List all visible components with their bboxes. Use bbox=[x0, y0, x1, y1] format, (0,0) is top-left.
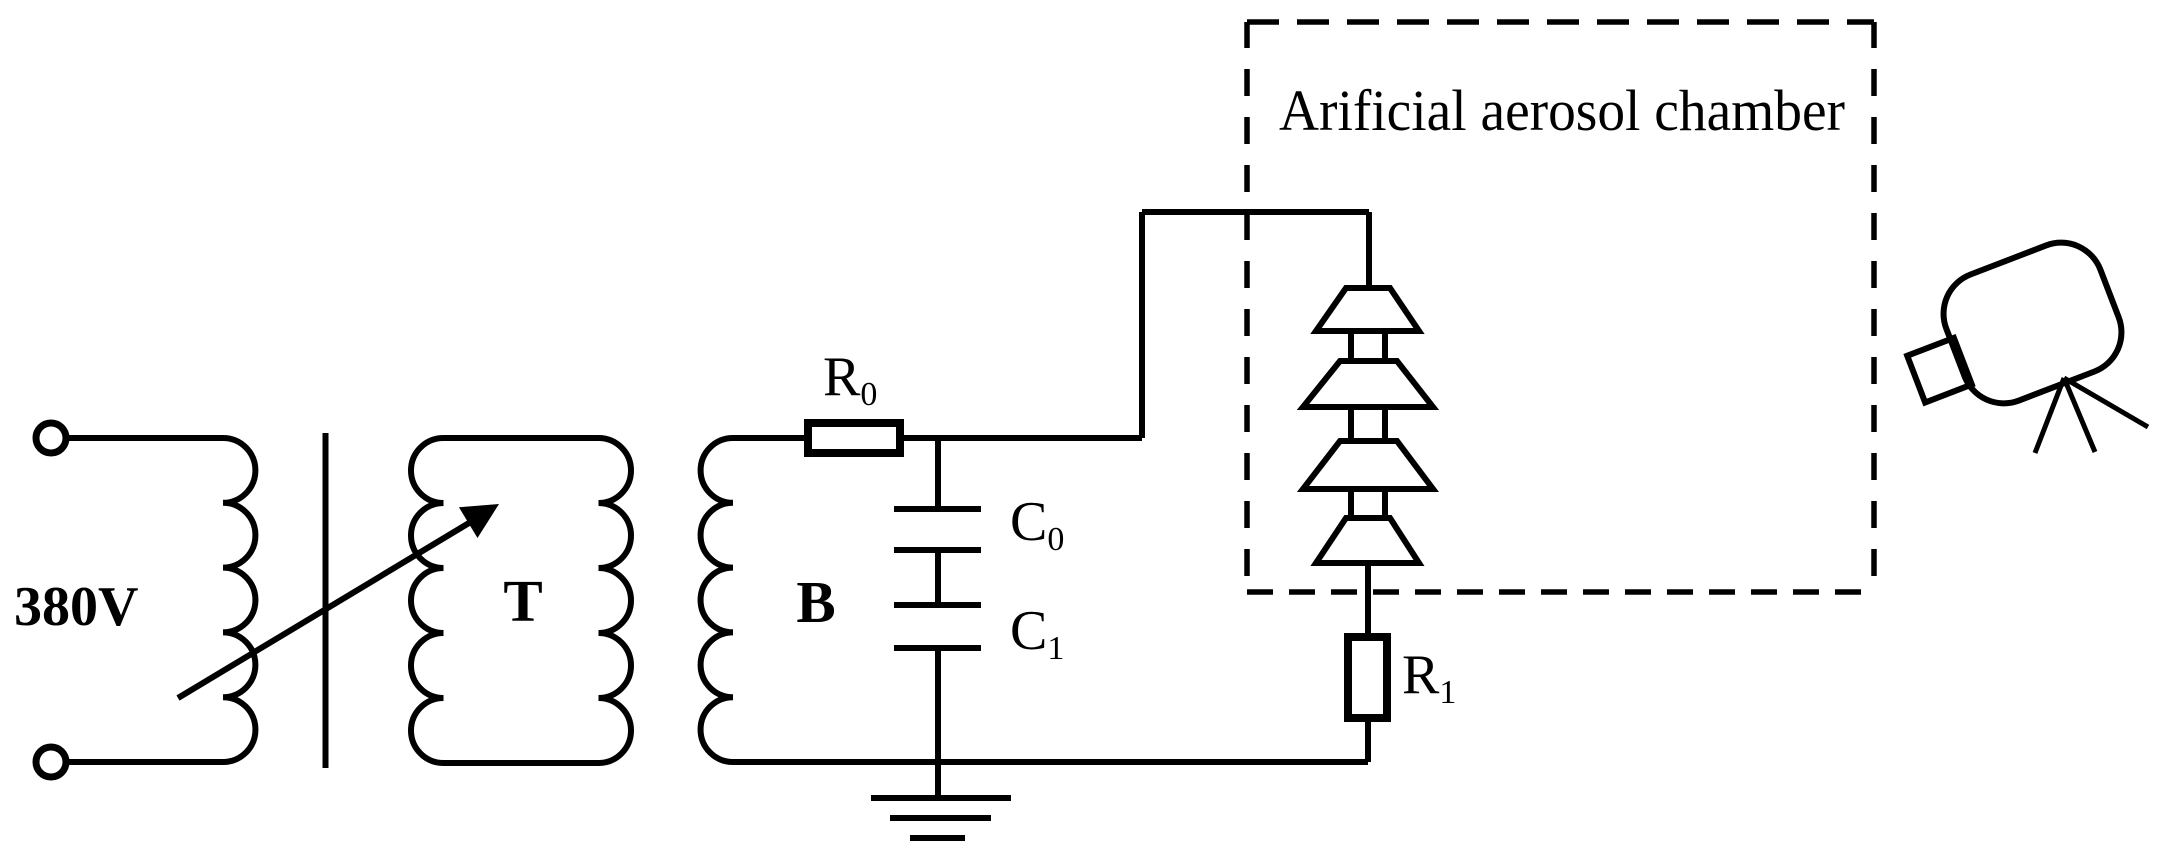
ground bbox=[871, 798, 1011, 838]
resistor R0 bbox=[808, 423, 900, 453]
wire down to insulator bbox=[1366, 212, 1372, 288]
insulator connector 3 bbox=[1351, 489, 1385, 518]
svg-text:T: T bbox=[503, 568, 542, 634]
wire riser up bbox=[1139, 212, 1145, 438]
insulator shed 3 bbox=[1303, 441, 1433, 489]
wire R0 to riser bbox=[903, 435, 1142, 441]
wire R1 to bottom bus bbox=[1365, 719, 1371, 762]
transformer T winding bbox=[411, 438, 631, 763]
camera tripod legs bbox=[2035, 378, 2148, 453]
wire bottom-left bbox=[67, 759, 223, 765]
camera lens bbox=[1907, 338, 1972, 403]
capacitor C1 bbox=[894, 605, 981, 648]
terminal circle top bbox=[36, 423, 66, 453]
winding B bbox=[701, 438, 733, 762]
capacitor C0 bbox=[894, 509, 981, 550]
wire top-left bbox=[67, 435, 223, 441]
insulator shed 1 bbox=[1316, 288, 1419, 331]
camera body bbox=[1888, 230, 2134, 432]
insulator connector 1 bbox=[1351, 331, 1385, 361]
wire C0 to C1 bbox=[935, 550, 941, 605]
insulator connector 2 bbox=[1351, 407, 1385, 441]
wire capacitor drop bbox=[935, 438, 941, 509]
svg-text:B: B bbox=[796, 569, 835, 635]
wire top horizontal into chamber bbox=[1142, 209, 1369, 215]
dashed box artificial aerosol chamber bbox=[1247, 22, 1874, 592]
insulator shed 2 bbox=[1303, 361, 1433, 407]
wire B to R0 bbox=[733, 435, 804, 441]
terminal circle bottom bbox=[36, 747, 66, 777]
inductor winding L1 (variac primary) bbox=[223, 438, 255, 762]
transformer core bar bbox=[323, 433, 329, 768]
svg-text:380V: 380V bbox=[14, 576, 138, 638]
insulator shed 4 bbox=[1316, 518, 1419, 563]
wire insulator to R1 bbox=[1365, 563, 1371, 637]
svg-text:Arificial aerosol chamber: Arificial aerosol chamber bbox=[1279, 78, 1845, 143]
wire C1 to ground bbox=[935, 648, 941, 798]
wire bottom bus bbox=[733, 759, 1368, 765]
resistor R1 bbox=[1348, 637, 1387, 718]
variac adjustment arrow bbox=[178, 523, 469, 698]
